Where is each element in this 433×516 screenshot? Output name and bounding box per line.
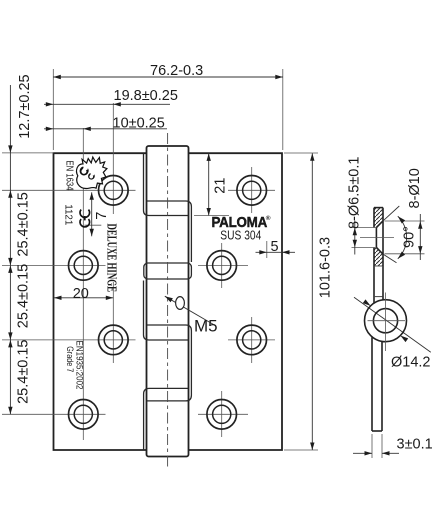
M5 leader line xyxy=(165,296,214,324)
svg-text:8-Ø10: 8-Ø10 xyxy=(407,168,423,208)
svg-text:®: ® xyxy=(266,214,271,222)
extension line right edge top xyxy=(282,69,284,150)
dim 10 line xyxy=(44,128,167,130)
svg-text:8-Ø6.5±0.1: 8-Ø6.5±0.1 xyxy=(347,157,363,229)
lower leaf bottom cap xyxy=(372,430,382,432)
dim 3 lines xyxy=(353,452,399,454)
barrel pin centerline xyxy=(167,133,169,470)
dim 7 arrows xyxy=(90,192,94,200)
dim 5 line xyxy=(256,251,296,253)
flame symbol EN1634 xyxy=(77,157,107,188)
svg-text:10±0.25: 10±0.25 xyxy=(113,116,165,132)
hinge front view xyxy=(54,146,283,457)
knuckle junction mid: right leaf edge xyxy=(147,325,191,401)
centerline column A xyxy=(82,128,84,440)
extension line bottom right xyxy=(284,449,318,451)
side view texts xyxy=(347,157,433,453)
bearing band xyxy=(144,263,192,279)
90 degree rays xyxy=(383,206,399,263)
svg-text:19.8±0.25: 19.8±0.25 xyxy=(114,88,178,104)
dimension texts xyxy=(16,63,334,404)
centerline row 1 left xyxy=(2,189,136,191)
hole L1 inner xyxy=(104,181,122,199)
knuckle junction upper: left leaf cut edge xyxy=(144,153,189,215)
svg-text:3±0.1: 3±0.1 xyxy=(397,437,433,453)
screw holes xyxy=(69,176,267,430)
svg-text:M5: M5 xyxy=(194,317,218,336)
svg-text:SUS 304: SUS 304 xyxy=(220,228,261,242)
svg-text:Ø14.2: Ø14.2 xyxy=(391,355,431,371)
CE mark letter C xyxy=(80,210,90,218)
knuckle barrel column xyxy=(147,146,189,457)
svg-text:7: 7 xyxy=(94,212,110,220)
svg-text:76.2-0.3: 76.2-0.3 xyxy=(150,63,203,79)
svg-text:EN 1634: EN 1634 xyxy=(63,161,74,191)
90 degree arc arrows xyxy=(396,215,405,224)
hole L3 inner xyxy=(104,331,122,349)
dim 19.8 line xyxy=(44,103,170,105)
svg-text:25.4±0.15: 25.4±0.15 xyxy=(16,192,32,256)
dia 14.2 arrows xyxy=(363,299,372,307)
section break line xyxy=(374,265,383,267)
svg-text:101.6-0.3: 101.6-0.3 xyxy=(318,237,334,298)
right leaf outline xyxy=(189,153,282,450)
svg-text:90°: 90° xyxy=(401,226,417,248)
dia 6.5 dim line xyxy=(354,221,356,255)
dim 12.7 arrows xyxy=(8,145,12,153)
hole L1 xyxy=(99,176,129,206)
dia 10 dim line xyxy=(419,214,421,260)
side view centerlines xyxy=(360,238,405,351)
svg-text:Grade 7: Grade 7 xyxy=(65,346,75,372)
hole L2 inner xyxy=(74,256,92,274)
dia 10 dim arrows xyxy=(418,221,422,229)
hole R2 inner xyxy=(213,256,231,274)
dim chain 12.7/25.4 line xyxy=(9,85,11,414)
centerline row 1 right xyxy=(228,189,275,191)
dim 20 arrows xyxy=(54,296,62,300)
centerline column C upper xyxy=(251,167,253,213)
centerline row 4 right xyxy=(198,413,248,415)
knuckle junction upper: right leaf edge xyxy=(147,201,191,262)
extension line tick 7 xyxy=(84,224,101,226)
centerline column D lower xyxy=(221,391,223,437)
hole L2 xyxy=(69,251,99,281)
hole L4 inner xyxy=(74,405,92,423)
M5 set screw hole ellipse xyxy=(176,297,185,310)
knuckle junction mid: left leaf cut edge xyxy=(144,281,189,341)
dim 76.2 arrows xyxy=(53,75,61,79)
hole L4 xyxy=(69,400,99,430)
extension line top right xyxy=(284,152,318,154)
centerline column B lower xyxy=(112,282,114,363)
extension line left edge top xyxy=(52,69,54,150)
dia 6.5 dim arrows xyxy=(353,228,357,236)
side leaf top cap xyxy=(374,207,383,209)
dimension lines xyxy=(10,77,430,450)
countersink bore wall xyxy=(375,228,377,248)
dim 19.8 arrows xyxy=(46,102,54,106)
svg-text:25.4±0.15: 25.4±0.15 xyxy=(16,339,32,403)
dim 10 arrows xyxy=(46,127,54,131)
hole R1 inner xyxy=(243,181,261,199)
centerline row 3 right xyxy=(228,339,275,341)
svg-text:25.4±0.15: 25.4±0.15 xyxy=(16,264,32,328)
centerline row 4 left xyxy=(2,413,106,415)
svg-text:12.7±0.25: 12.7±0.25 xyxy=(17,74,33,138)
svg-text:21: 21 xyxy=(212,178,228,194)
dim 21 line xyxy=(208,153,210,215)
top edge extension line left xyxy=(2,152,54,154)
90 degree arc xyxy=(398,216,407,259)
extension line knuckle 21 xyxy=(194,215,229,217)
centerline row 2 right xyxy=(198,264,248,266)
lower leaf right edge xyxy=(381,342,383,431)
svg-text:EN1935:2002: EN1935:2002 xyxy=(74,341,84,390)
left leaf outline xyxy=(54,153,147,450)
centerline column D upper xyxy=(221,243,223,288)
knuckle junction lower: left leaf cut edge xyxy=(144,388,189,450)
countersink cone faces xyxy=(376,221,383,254)
dia 14.2 leader line xyxy=(354,297,431,352)
svg-text:20: 20 xyxy=(73,286,89,302)
centerline row 3 left xyxy=(2,339,136,341)
dim 7 line xyxy=(91,192,93,236)
lower leaf left edge xyxy=(371,337,373,431)
centerline column B upper xyxy=(112,103,114,214)
dim 101.6 arrows xyxy=(310,153,314,161)
leaf cross-section hatch upper xyxy=(374,208,383,228)
svg-text:1121: 1121 xyxy=(63,204,75,225)
countersink extension lines xyxy=(352,221,425,458)
centerline row 2 left xyxy=(2,264,106,266)
svg-text:DELUXE HINGE: DELUXE HINGE xyxy=(104,224,119,293)
hole R3 inner xyxy=(243,331,261,349)
dim 76.2 line xyxy=(53,76,282,78)
dim 3 arrows xyxy=(365,451,373,455)
dim 20 line xyxy=(54,297,113,299)
dim 5 arrows xyxy=(259,250,267,254)
M5 leader arrow xyxy=(164,294,173,302)
bar-knuckle junction cap xyxy=(374,296,383,298)
leaf cross-section hatch lower xyxy=(374,248,383,267)
hole R4 inner xyxy=(213,405,231,423)
pin bore circle xyxy=(373,309,397,333)
hole L3 xyxy=(99,325,129,355)
hole R2 xyxy=(207,251,237,281)
side leaf left edge xyxy=(373,208,375,303)
svg-text:5: 5 xyxy=(271,239,279,255)
knuckle outer circle xyxy=(365,300,407,342)
CE mark letter E xyxy=(80,216,90,227)
dim 21 arrows xyxy=(207,153,211,161)
centerline column C lower xyxy=(251,317,253,363)
side leaf right edge xyxy=(382,208,384,300)
hole R3 xyxy=(237,325,267,355)
hole R4 xyxy=(207,400,237,430)
dim 101.6 line xyxy=(311,153,313,450)
hole R1 xyxy=(237,176,267,206)
extension line hole edge 5 xyxy=(266,241,268,258)
dim 25.4 chain arrows xyxy=(8,258,12,266)
